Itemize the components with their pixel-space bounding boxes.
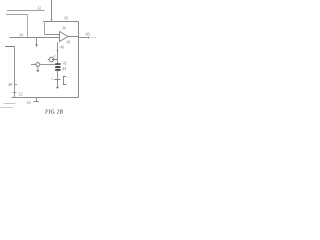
big circle device	[49, 57, 54, 62]
ground bar	[34, 101, 40, 103]
wire W14 stub into left rail	[5, 46, 15, 48]
wire W12 bottom bus	[12, 97, 79, 99]
svg-text:52: 52	[19, 91, 23, 96]
wire W24 vertical below component	[57, 71, 59, 88]
wire W4 long horizontal to op-amp inverting input	[10, 37, 60, 39]
svg-text:32: 32	[37, 5, 41, 10]
svg-text:42: 42	[63, 60, 67, 65]
capacitor tick on W24	[54, 79, 60, 81]
ground stub below bottom bus	[36, 98, 38, 102]
bracket component right	[64, 76, 67, 85]
op-amp U1 triangle	[60, 32, 69, 42]
wire W7 vertical from top bus	[44, 22, 46, 35]
component stack bar1	[55, 63, 60, 65]
wire W1 top-left upper	[7, 10, 45, 12]
wire W2 top-left lower	[6, 14, 28, 16]
tick on left rail upper	[15, 84, 18, 86]
arrowhead down W15	[35, 44, 38, 47]
wire W21 from big circle to vertical	[54, 59, 58, 61]
small marks after arrow	[93, 37, 97, 39]
tick on left rail lower	[13, 92, 17, 94]
component stack bar2	[55, 66, 60, 68]
left stub of big circle	[48, 59, 49, 61]
faint smudge bottom-left a	[4, 103, 16, 105]
wire W11 right rail	[78, 22, 80, 98]
wire W15 stub with down arrow from node bus	[36, 38, 38, 45]
wire W18 stub below small circle	[37, 66, 39, 69]
wire W19 from small circle to component	[40, 64, 56, 66]
wire W3 vertical from W2 down to node bus	[27, 15, 29, 38]
svg-text:34: 34	[19, 32, 23, 37]
dot inside big circle	[52, 59, 54, 61]
wire W22 op-amp lower pin vertical	[57, 42, 59, 63]
plus mark left of tick	[52, 78, 54, 80]
wire W17 left stub into small circle	[31, 64, 36, 66]
blob end of W24	[56, 87, 58, 89]
diagonal tick upper-right of big circle	[54, 55, 56, 56]
faint smudge bottom-left b	[0, 107, 13, 109]
svg-text:44: 44	[62, 66, 66, 71]
wire W10 op-amp output	[68, 36, 79, 38]
wire W8 to op-amp non-inverting input	[45, 34, 60, 36]
faint mark near bracket top	[67, 76, 68, 78]
arrowhead on W21	[55, 59, 57, 61]
svg-text:FIG. 2B: FIG. 2B	[45, 109, 63, 116]
arrowhead into small circle	[34, 64, 36, 66]
blob below small circle	[37, 70, 40, 72]
wire W5 vertical from image top	[51, 0, 53, 21]
wire W13 left rail	[14, 47, 16, 98]
small circle electrode	[36, 63, 40, 67]
arrowhead at bottom of W5	[50, 19, 52, 21]
wire output continuation right of rail	[79, 37, 89, 39]
arrowhead output	[88, 37, 91, 39]
component stack bar3	[55, 69, 60, 71]
wire W6 top bus	[43, 21, 79, 23]
arrowhead on W22	[57, 50, 59, 52]
